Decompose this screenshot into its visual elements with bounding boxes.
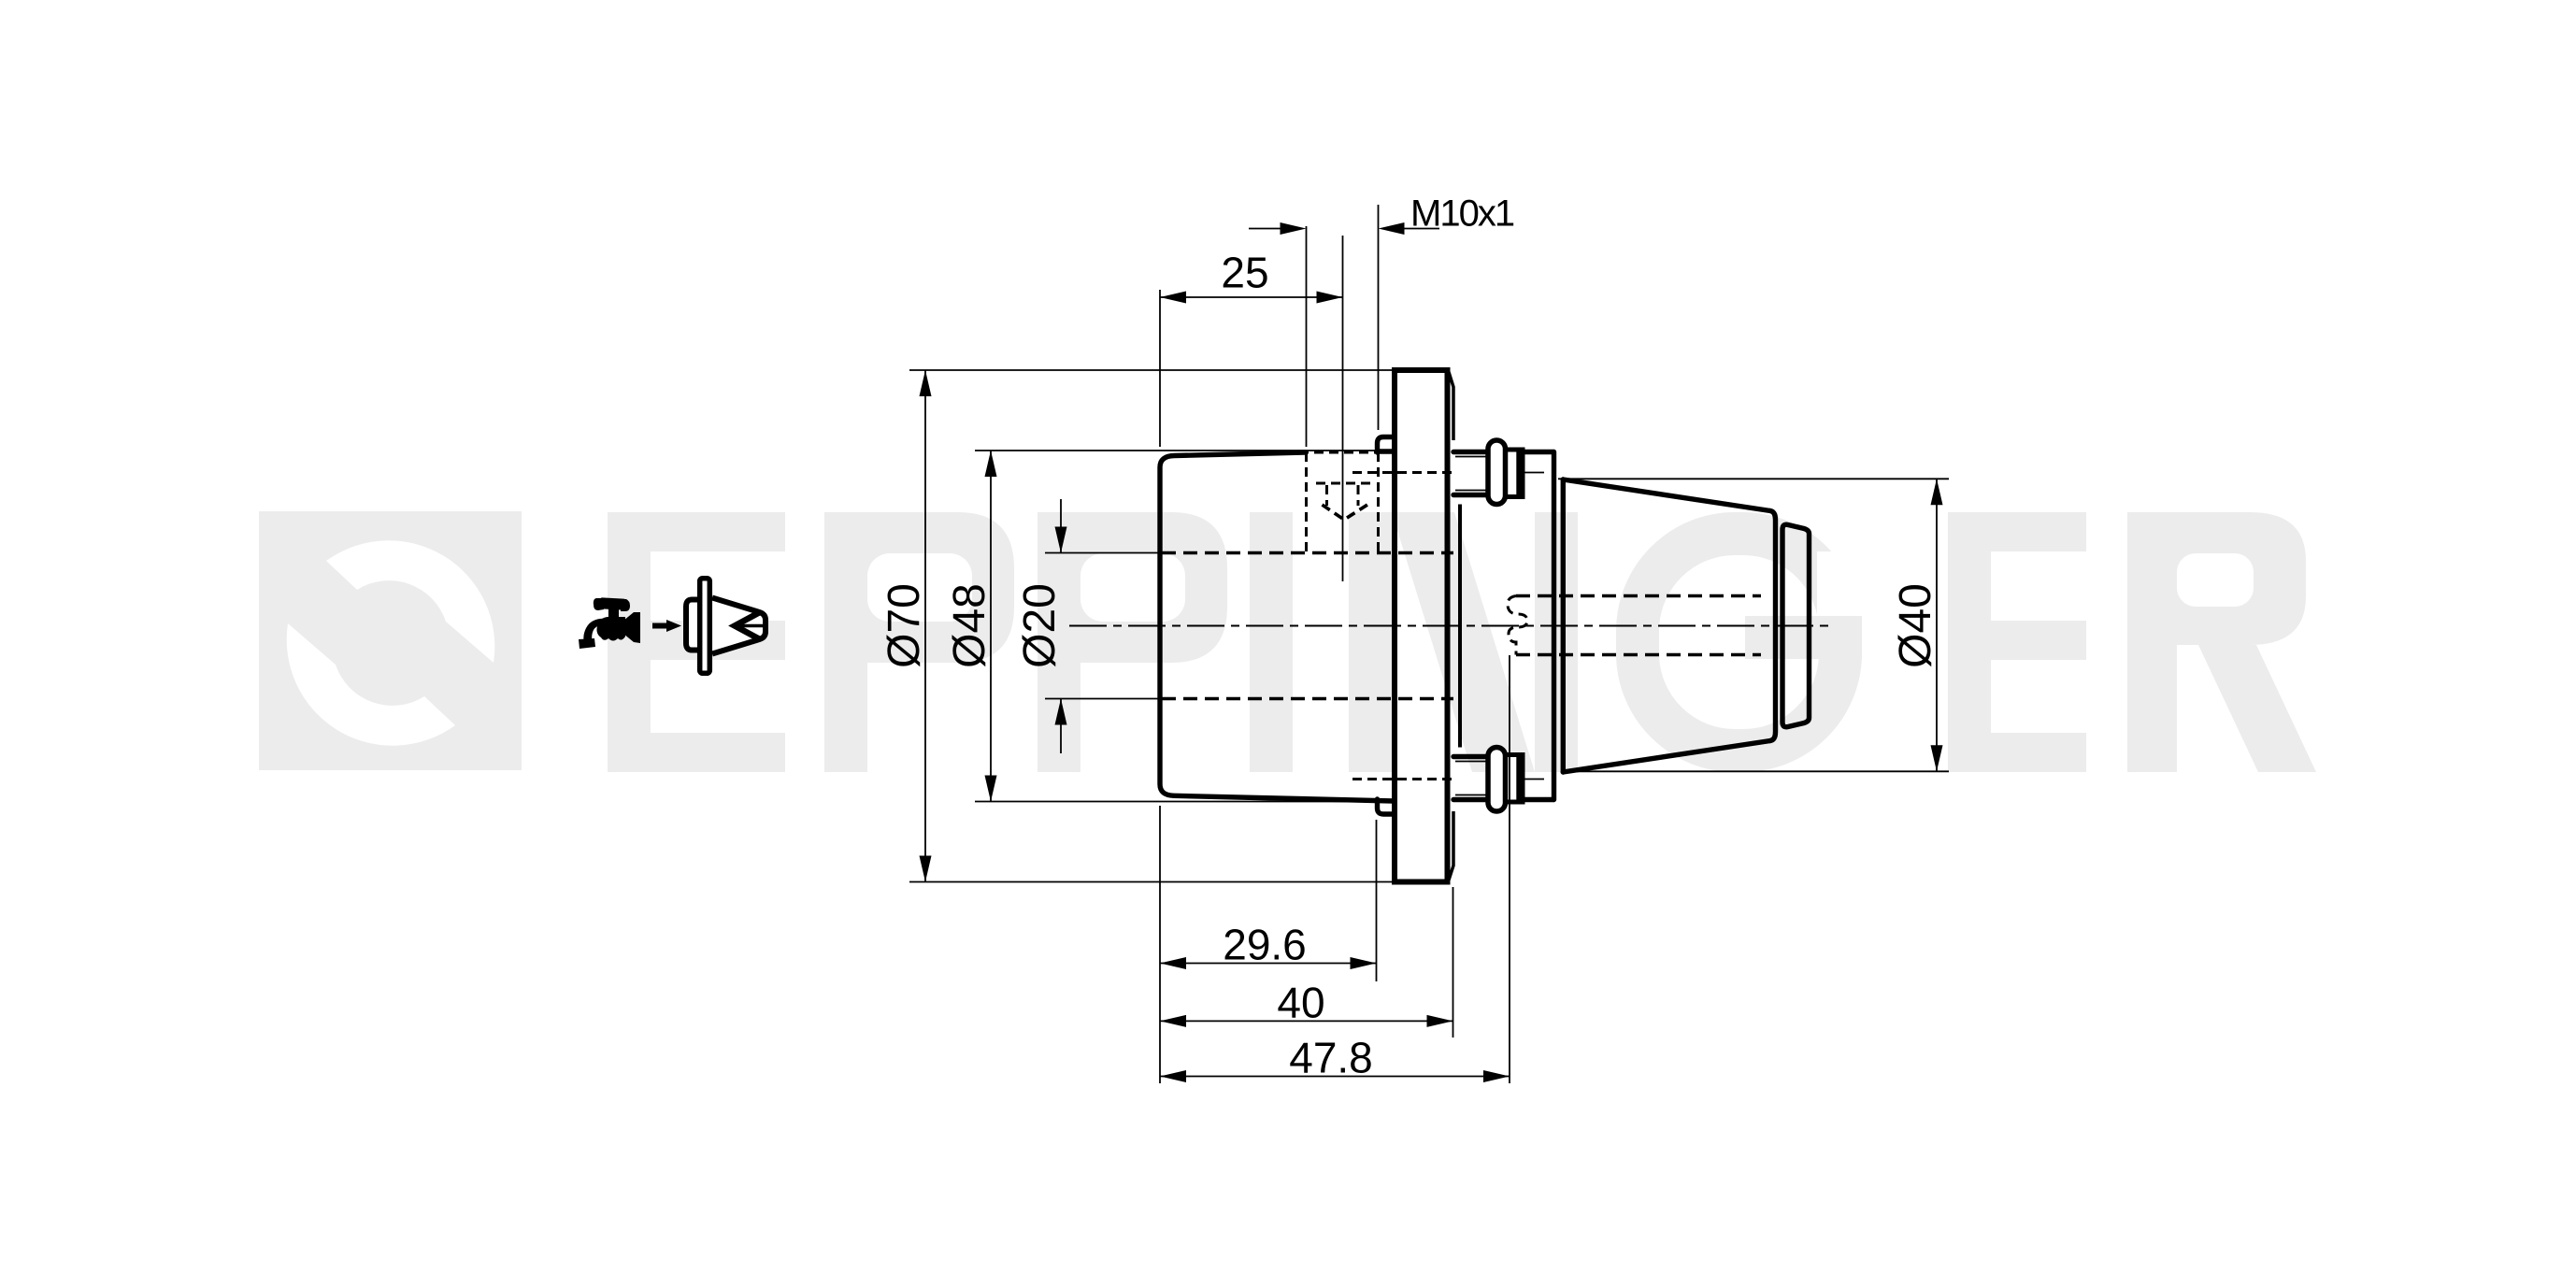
bolt top shaft — [1453, 452, 1553, 495]
dim 25 line — [1160, 249, 1343, 448]
stop tab top — [1378, 437, 1395, 453]
bolt top washer — [1488, 440, 1506, 505]
clamping nut back face — [1552, 452, 1556, 800]
watermark letter P — [1038, 512, 1227, 772]
dim M10x1 — [1249, 193, 1514, 448]
watermark logo blade upper — [326, 540, 494, 663]
bolt top head — [1506, 450, 1524, 497]
body outline — [1160, 452, 1394, 801]
svg-text:Ø20: Ø20 — [1015, 583, 1065, 668]
svg-text:47.8: 47.8 — [1289, 1034, 1373, 1082]
thread relief hidden S — [1508, 596, 1527, 655]
coolant flow arrow — [652, 620, 681, 632]
dim Ø48 — [945, 451, 1393, 802]
dim 47.8 — [1160, 655, 1510, 1083]
coolant faucet icon — [579, 597, 640, 649]
dim Ø40 — [1558, 479, 1949, 771]
bolt axis hidden bottom — [1352, 778, 1453, 780]
clamping nut front face — [1770, 511, 1776, 741]
bolt top axis stub — [1524, 472, 1544, 474]
flange rim chamfer — [1449, 372, 1453, 440]
dim 29.6 — [1160, 820, 1377, 981]
collet nose — [1782, 524, 1810, 727]
svg-text:Ø40: Ø40 — [1891, 583, 1940, 668]
clamping nut bottom slope — [1563, 741, 1770, 773]
watermark letter N — [1349, 512, 1578, 772]
bore Ø20 hidden top — [1162, 551, 1453, 555]
bolt axis hidden top — [1352, 471, 1453, 474]
stop tab bottom — [1378, 799, 1395, 814]
svg-text:Ø70: Ø70 — [880, 583, 929, 668]
watermark letter R — [2127, 512, 2316, 772]
mini tool icon body — [686, 600, 697, 651]
bore Ø20 hidden bottom — [1162, 697, 1453, 701]
svg-text:29.6: 29.6 — [1223, 921, 1307, 969]
watermark letter E — [608, 512, 785, 772]
clamping nut big end — [1561, 479, 1566, 772]
watermark letter P — [824, 512, 1014, 772]
mini tool icon flange — [700, 579, 710, 674]
bolt bottom axis stub — [1524, 779, 1544, 780]
center line — [1069, 625, 1831, 627]
mini tool icon cone — [712, 598, 766, 654]
svg-text:40: 40 — [1277, 978, 1324, 1026]
dim 40 — [1160, 887, 1453, 1038]
watermark letter E — [1948, 512, 2086, 772]
clamping nut top slope — [1563, 479, 1770, 511]
mini tool icon arrow — [735, 613, 765, 639]
dim Ø20 — [1015, 499, 1162, 753]
watermark logo blade lower — [287, 623, 455, 746]
watermark logo tile — [259, 511, 522, 770]
watermark letter I — [1250, 512, 1293, 772]
bolt bottom washer — [1488, 748, 1506, 812]
dim Ø70 — [880, 370, 1392, 882]
watermark letter G — [1638, 534, 1869, 751]
svg-text:25: 25 — [1221, 249, 1268, 297]
svg-text:M10x1: M10x1 — [1410, 193, 1514, 235]
bore Ø8 hidden top — [1516, 594, 1761, 598]
M10 hole hidden outline — [1299, 452, 1384, 551]
body top edge right of M10 — [1380, 449, 1394, 453]
bolt bottom shaft — [1453, 757, 1553, 800]
svg-text:Ø48: Ø48 — [945, 583, 995, 668]
bolt bottom head — [1506, 755, 1524, 803]
flange plate — [1395, 370, 1448, 882]
M10 hole centerline — [1342, 236, 1344, 581]
bore Ø8 hidden bottom — [1516, 653, 1761, 657]
